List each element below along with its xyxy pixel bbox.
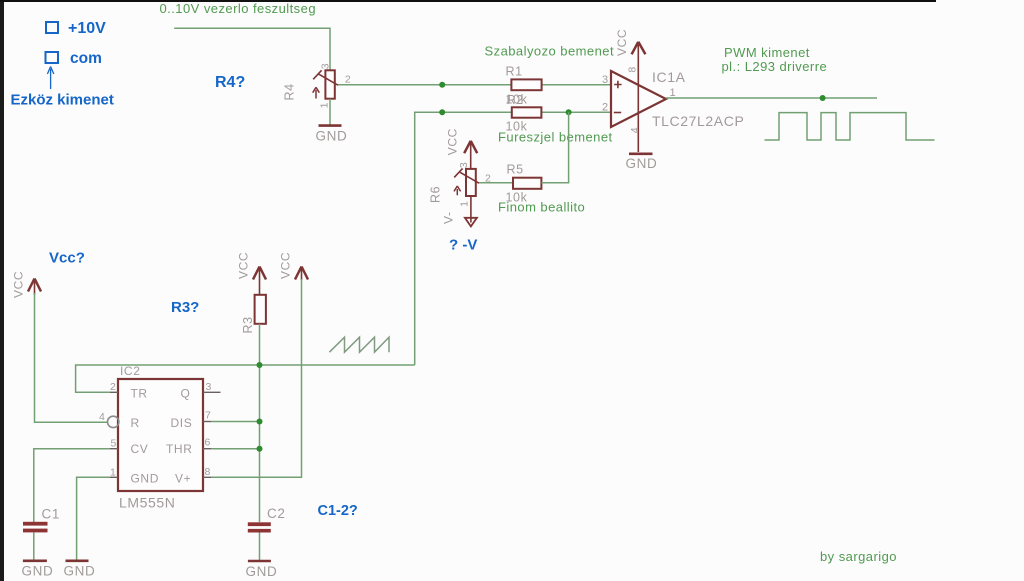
svg-text:3: 3 — [206, 381, 212, 393]
wire R6 wiper to R5 — [479, 182, 513, 184]
junction dot node D — [257, 362, 263, 368]
ground symbol under C2 — [248, 560, 271, 563]
svg-text:TR: TR — [131, 387, 148, 401]
svg-text:V-: V- — [442, 211, 456, 224]
svg-text:R: R — [131, 416, 140, 430]
op-amp plus input marker — [614, 81, 621, 88]
pin stub 3 Q output — [203, 391, 221, 393]
supply symbol VCC above R3 — [253, 267, 266, 295]
sawtooth waveform drawing — [329, 337, 389, 352]
svg-text:Finom beallito: Finom beallito — [498, 200, 585, 215]
svg-text:GND: GND — [316, 129, 348, 144]
wire net R4 wiper to op-amp pin 3 — [338, 84, 611, 86]
wire 555 CV to C1 — [34, 449, 110, 522]
pin stub 8 V+ — [203, 476, 211, 478]
supply symbol V- below R6 — [465, 218, 477, 227]
supply line VCC pin 8 to GND pin 4 through op-amp — [637, 44, 639, 153]
blue arrow to com — [47, 67, 53, 90]
svg-text:3: 3 — [602, 74, 609, 86]
wire C1 to ground — [33, 532, 35, 559]
svg-text:GND: GND — [246, 564, 278, 579]
supply symbol VCC above R6 — [464, 141, 477, 169]
svg-text:IC1A: IC1A — [652, 69, 686, 85]
svg-text:1: 1 — [670, 87, 677, 99]
pin stub 6 THR — [203, 448, 211, 450]
checkbox com — [46, 52, 59, 63]
wire 555 DIS to node — [211, 421, 260, 423]
checkbox +10V — [46, 22, 58, 33]
wire VCC down to 555 pin 8 V+ — [211, 279, 302, 477]
junction dot node E — [257, 419, 263, 425]
wire 555 THR to node — [211, 448, 260, 450]
svg-text:Q: Q — [181, 387, 191, 401]
svg-text:4: 4 — [99, 411, 105, 423]
svg-text:4: 4 — [629, 127, 641, 133]
svg-text:IC2: IC2 — [120, 364, 140, 378]
svg-text:Fureszjel bemenet: Fureszjel bemenet — [498, 130, 613, 145]
svg-text:GND: GND — [626, 156, 658, 171]
svg-text:VCC: VCC — [279, 252, 293, 279]
svg-text:8: 8 — [627, 66, 639, 72]
wire VCC to 555 pin 4 reset — [35, 293, 109, 422]
svg-text:GND: GND — [64, 564, 96, 579]
resistor R5 — [513, 178, 541, 189]
svg-text:C2: C2 — [267, 506, 285, 521]
op-amp minus input marker — [614, 112, 621, 114]
svg-text:3: 3 — [458, 162, 470, 168]
svg-text:CV: CV — [131, 442, 149, 456]
svg-text:? -V: ? -V — [449, 237, 477, 254]
svg-text:5: 5 — [111, 438, 117, 450]
supply symbol VCC above op-amp — [632, 42, 646, 55]
svg-text:2: 2 — [602, 102, 609, 114]
PWM waveform drawing — [765, 113, 935, 140]
resistor R1 — [511, 79, 541, 90]
potentiometer R4 — [313, 70, 338, 98]
svg-text:3: 3 — [320, 63, 332, 69]
svg-text:2: 2 — [110, 381, 116, 393]
op-amp U1 IC1A triangle — [611, 71, 666, 127]
capacitor C2 — [248, 522, 271, 532]
wire 555 trigger to sawtooth net — [76, 365, 415, 392]
svg-text:VCC: VCC — [237, 252, 251, 279]
svg-text:R4?: R4? — [215, 74, 245, 91]
svg-text:Szabalyozo bemenet: Szabalyozo bemenet — [485, 44, 615, 59]
svg-text:PWM kimenet: PWM kimenet — [724, 45, 810, 60]
pin stub 4 R with inversion bubble — [108, 416, 119, 427]
ground symbol under op-amp — [629, 153, 653, 156]
wire R4 pin1 to ground — [329, 99, 331, 125]
wire C2 to ground — [259, 533, 261, 561]
svg-text:R1: R1 — [506, 65, 523, 79]
svg-text:6: 6 — [205, 437, 211, 449]
junction dot on output — [820, 95, 826, 101]
svg-text:GND: GND — [131, 472, 159, 486]
ground symbol under 555 pin1 — [66, 559, 89, 562]
svg-text:Ezköz kimenet: Ezköz kimenet — [11, 92, 114, 109]
wire R5 to inverting input net — [541, 112, 568, 183]
pin stub 2 TR — [110, 391, 118, 393]
svg-text:VCC: VCC — [446, 128, 460, 155]
svg-text:R2: R2 — [507, 93, 524, 107]
svg-text:0..10V vezerlo feszultseg: 0..10V vezerlo feszultseg — [160, 1, 317, 16]
svg-text:1: 1 — [319, 102, 331, 108]
svg-text:R6: R6 — [429, 186, 443, 203]
svg-text:DIS: DIS — [171, 416, 193, 430]
wire R3 bottom down to C2 — [259, 324, 261, 522]
resistor R3 — [255, 295, 266, 324]
svg-text:Vcc?: Vcc? — [49, 250, 85, 267]
supply symbol VCC far left — [28, 279, 41, 296]
wire net control voltage into R4 pin 3 — [174, 28, 330, 70]
pin stub 7 DIS — [203, 421, 211, 423]
svg-text:7: 7 — [205, 410, 211, 422]
ground symbol under R4 — [319, 124, 342, 127]
svg-text:VCC: VCC — [12, 271, 26, 298]
svg-text:com: com — [70, 50, 102, 67]
svg-text:C1-2?: C1-2? — [318, 503, 358, 519]
svg-text:TLC27L2ACP: TLC27L2ACP — [652, 113, 744, 129]
svg-text:by sargarigo: by sargarigo — [820, 549, 897, 564]
svg-text:pl.: L293 driverre: pl.: L293 driverre — [722, 59, 828, 74]
IC U2 555 timer IC2 body — [118, 379, 203, 491]
svg-text:8: 8 — [205, 466, 211, 478]
svg-text:R3?: R3? — [171, 299, 199, 316]
wire net sawtooth to op-amp pin 2 — [415, 112, 611, 365]
wire 555 GND pin to ground — [77, 477, 110, 559]
supply symbol VCC above 555 V+ — [295, 267, 308, 281]
svg-text:2: 2 — [345, 74, 351, 86]
svg-text:VCC: VCC — [615, 29, 629, 56]
wire R6 pin1 to V- — [470, 196, 472, 223]
svg-text:R5: R5 — [507, 163, 524, 177]
svg-text:LM555N: LM555N — [119, 495, 176, 511]
pin stub 5 CV — [110, 448, 118, 450]
svg-text:THR: THR — [166, 442, 192, 456]
junction dot node F — [257, 446, 263, 452]
ground symbol under C1 — [23, 559, 47, 562]
junction dot node C — [566, 109, 572, 115]
svg-text:+10V: +10V — [68, 20, 106, 37]
svg-text:C1: C1 — [42, 507, 60, 522]
frame left black bar — [0, 0, 4, 581]
svg-text:V+: V+ — [175, 472, 191, 486]
potentiometer R6 — [454, 168, 479, 196]
svg-text:1: 1 — [110, 467, 116, 479]
frame top black bar — [0, 0, 936, 2]
junction dot node A — [439, 82, 445, 88]
pin stub 1 GND — [110, 476, 118, 478]
junction dot node B — [439, 109, 445, 115]
resistor R2 — [512, 107, 542, 117]
wire op-amp output — [666, 97, 877, 99]
capacitor C1 — [23, 522, 48, 533]
svg-text:R4: R4 — [283, 83, 297, 100]
svg-text:GND: GND — [22, 564, 54, 579]
svg-text:1: 1 — [459, 200, 471, 206]
svg-text:R3: R3 — [241, 316, 255, 333]
